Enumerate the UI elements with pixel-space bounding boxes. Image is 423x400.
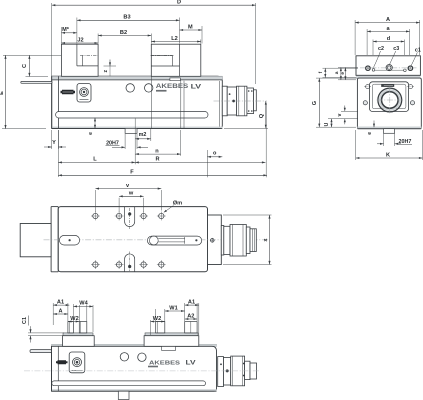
svg-text:M*: M* [62, 27, 70, 33]
svg-text:L2: L2 [171, 36, 178, 42]
svg-text:L: L [93, 157, 97, 163]
svg-text:c2: c2 [378, 46, 384, 52]
svg-text:LV: LV [186, 360, 197, 367]
svg-text:AKEBES: AKEBES [149, 360, 180, 366]
svg-text:c3: c3 [393, 46, 399, 52]
svg-text:B2: B2 [120, 30, 127, 36]
svg-text:v: v [337, 113, 343, 116]
svg-text:a: a [335, 71, 340, 74]
svg-text:W4: W4 [79, 301, 88, 307]
svg-text:AKEBES: AKEBES [156, 84, 189, 90]
svg-text:C1: C1 [22, 317, 28, 324]
svg-text:B3: B3 [123, 15, 130, 21]
svg-text:A: A [386, 17, 390, 23]
svg-text:e: e [341, 72, 346, 75]
svg-text:D: D [177, 0, 181, 6]
svg-text:W2: W2 [70, 316, 78, 322]
svg-text:A1: A1 [188, 299, 195, 305]
svg-text:W2: W2 [153, 316, 161, 322]
svg-text:M: M [188, 24, 193, 30]
svg-text:d: d [387, 36, 391, 42]
svg-text:z: z [103, 69, 109, 72]
svg-text:Øm: Øm [173, 201, 182, 207]
svg-text:c1: c1 [415, 47, 421, 53]
svg-text:n: n [155, 148, 159, 154]
svg-text:Y: Y [52, 140, 56, 146]
svg-text:A2: A2 [187, 313, 194, 319]
svg-text:R: R [155, 157, 159, 163]
svg-text:K: K [386, 152, 390, 158]
svg-text:20H7: 20H7 [398, 139, 411, 145]
svg-text:C: C [22, 64, 28, 68]
svg-text:m2: m2 [139, 132, 147, 138]
svg-text:F: F [130, 170, 134, 176]
svg-text:w: w [128, 191, 134, 197]
svg-text:Q: Q [259, 113, 265, 118]
svg-text:U: U [324, 122, 330, 126]
svg-text:G: G [312, 101, 318, 105]
svg-text:o: o [213, 151, 217, 157]
svg-text:A: A [58, 308, 62, 314]
svg-text:e: e [367, 132, 373, 135]
svg-text:W1: W1 [169, 305, 177, 311]
svg-text:LV: LV [191, 84, 202, 91]
svg-text:e: e [88, 132, 94, 135]
svg-text:E: E [0, 91, 5, 95]
svg-text:A1: A1 [57, 299, 64, 305]
svg-text:J2: J2 [77, 38, 83, 44]
